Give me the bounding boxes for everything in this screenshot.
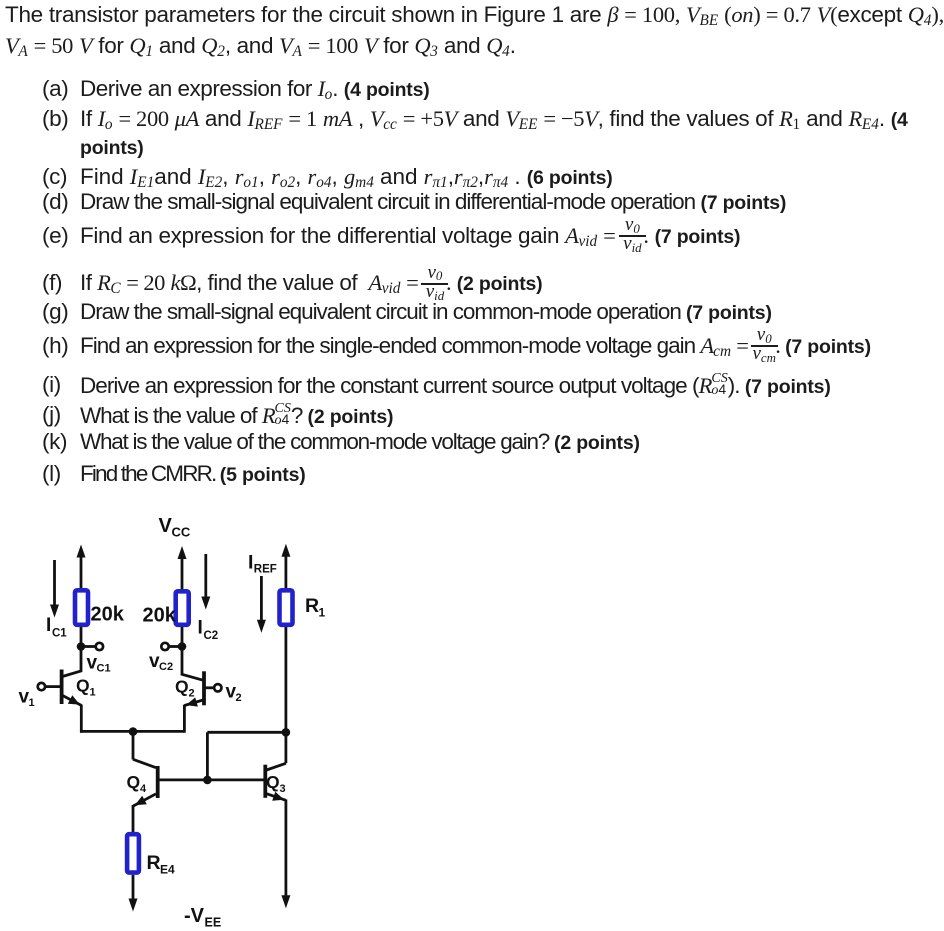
svg-text:Q: Q (266, 772, 280, 792)
wire Q4 base to Q3 base (158, 779, 266, 782)
current arrow IC2 (201, 554, 210, 610)
wire stub to vC2 terminal (168, 645, 182, 648)
svg-text:V: V (159, 515, 173, 537)
svg-text:2: 2 (236, 692, 242, 704)
svg-text:2: 2 (189, 688, 195, 700)
wire emitter bus (80, 730, 184, 733)
item a (42, 76, 68, 102)
item b (42, 106, 68, 132)
wire R1 branch to VCC with arrow (281, 544, 290, 589)
transistor Q3 emitter (267, 792, 286, 801)
label Q2 (175, 677, 195, 700)
svg-text:1: 1 (29, 697, 35, 709)
wire Q4 collector (133, 759, 156, 767)
wire Q3 base-collector tie horizontal (207, 731, 286, 734)
wire Q3 base-collector tie vertical (206, 732, 209, 780)
label R1 (305, 595, 326, 620)
wire R1 down to Q3 collector (284, 627, 287, 763)
resistor R1 (280, 590, 293, 625)
current arrow IREF (257, 576, 266, 633)
current arrow IC1 (50, 560, 59, 618)
transistor Q4 emitter (133, 794, 156, 806)
node dot vC2 (178, 642, 187, 651)
node VCC label (159, 515, 191, 540)
paragraph line 1 (5, 2, 944, 28)
wire Q3 collector (267, 763, 286, 770)
label Q1 (76, 676, 96, 699)
item c (42, 164, 67, 190)
wire tail node down to Q4 (132, 732, 135, 760)
transistor Q1 base bar (60, 670, 64, 705)
node dot tail junction (129, 727, 138, 736)
wire stub to vC1 terminal (81, 645, 96, 648)
CIRCUIT (0, 500, 345, 931)
svg-text:R: R (305, 595, 319, 617)
svg-text:I: I (46, 615, 51, 636)
label Q4 (127, 772, 148, 795)
label RE4 (147, 852, 176, 877)
wire Q4 emitter down to RE4 (132, 805, 135, 833)
transistor Q4 base bar (156, 766, 160, 798)
resistor RC1 20k (75, 590, 88, 625)
svg-text:EE: EE (205, 916, 222, 930)
transistor Q3 base bar (263, 765, 267, 798)
svg-text:C1: C1 (52, 628, 67, 640)
wire Q1 emitter down (80, 705, 83, 733)
wire Q3 emitter down to VEE with arrow (281, 800, 290, 909)
node dot R1/Q4-base junction (282, 728, 291, 737)
node dot base junction (203, 776, 212, 785)
label v1 (19, 687, 35, 710)
svg-text:20k: 20k (143, 605, 177, 627)
svg-text:Q: Q (76, 676, 90, 696)
transistor Q2 emitter (184, 697, 203, 706)
wire Q1-collector branch to VCC with arrow (77, 545, 86, 590)
label Q3 (266, 772, 286, 795)
wire resistor RC2 to node vC2 (181, 627, 184, 648)
item j (42, 402, 61, 428)
wire Q2 base to v2 (204, 686, 214, 689)
wire Q2-collector branch to VCC with arrow (178, 546, 187, 589)
svg-text:R: R (147, 852, 161, 874)
svg-text:CC: CC (172, 525, 191, 540)
resistor RE4 (127, 834, 139, 872)
svg-text:C2: C2 (204, 630, 219, 642)
svg-text:I: I (248, 552, 253, 574)
resistor RC2 20k (176, 591, 189, 625)
svg-text:1: 1 (90, 687, 96, 699)
wire Q2 emitter down (183, 705, 186, 733)
svg-text:3: 3 (280, 783, 286, 795)
node dot vC1 (77, 642, 86, 651)
svg-text:I: I (198, 618, 203, 639)
terminal circle v2 (214, 684, 221, 691)
svg-text:Q: Q (175, 677, 189, 697)
label IC2 (198, 618, 219, 643)
svg-text:C1: C1 (97, 663, 111, 675)
wire RE4 down to VEE with arrow (129, 875, 138, 912)
svg-text:Q: Q (127, 772, 141, 792)
svg-text:C2: C2 (159, 661, 173, 673)
label v2 (226, 682, 242, 705)
label vC2 (149, 651, 173, 673)
item i (42, 372, 61, 398)
wire Q2 collector (182, 647, 203, 681)
terminal circle v1 (38, 683, 45, 690)
svg-text:20k: 20k (91, 604, 125, 626)
wire Q1 collector (63, 647, 81, 677)
label vC1 (87, 653, 111, 675)
svg-text:-V: -V (184, 905, 205, 927)
item h (42, 333, 68, 359)
svg-text:4: 4 (140, 783, 147, 795)
label IREF (248, 552, 277, 576)
label -VEE (184, 905, 221, 930)
item l (42, 461, 61, 487)
item g (42, 299, 68, 325)
paragraph line 2 (5, 33, 516, 59)
item d (42, 189, 68, 215)
wire v1 to Q1 base (45, 685, 60, 688)
item e (42, 223, 68, 249)
svg-text:E4: E4 (160, 863, 175, 877)
transistor Q1 emitter (63, 695, 82, 705)
svg-text:REF: REF (254, 564, 277, 576)
item k (42, 429, 67, 455)
item f (42, 270, 62, 296)
wire resistor RC1 to node vC1 (80, 627, 83, 648)
terminal circle vC2 (161, 643, 168, 650)
terminal circle vC1 (96, 643, 103, 650)
svg-text:1: 1 (319, 606, 326, 620)
label IC1 (46, 615, 67, 640)
transistor Q2 base bar (202, 671, 206, 705)
